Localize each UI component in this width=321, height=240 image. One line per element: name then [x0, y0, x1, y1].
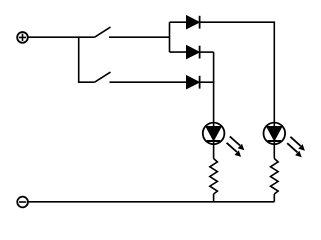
LED LED2 [264, 123, 286, 145]
wire: R2 to ground rail [273, 194, 275, 202]
resistor R1 [210, 159, 218, 195]
diode D2 [187, 46, 200, 59]
wire: + terminal to switch S1 [28, 36, 95, 38]
wire: LED1 branch vertical [213, 52, 215, 158]
diode D1 [187, 16, 200, 29]
diode D3 [187, 76, 200, 89]
wire: S2 to diode D3 [110, 81, 187, 83]
resistor R2 [271, 159, 279, 195]
switch S2 [95, 72, 111, 82]
wire: bus to diode D2 [170, 51, 187, 53]
battery negative terminal - [17, 197, 28, 208]
wire: diode input bus vertical [169, 22, 171, 52]
LED1 emission arrows [227, 136, 245, 157]
LED LED1 [203, 123, 225, 145]
wire: D2 to LED1 branch [200, 51, 214, 53]
wire: LED2 branch vertical [273, 122, 275, 159]
wire: ground rail [28, 201, 274, 203]
wire: D3 to LED1 branch [200, 81, 214, 83]
LED2 emission arrows [287, 137, 305, 158]
wire: junction node down to switch S2 [79, 37, 95, 82]
wire: S1 to diode bus [109, 36, 170, 38]
wire: D1 to LED2 branch (top right corner) [200, 22, 275, 122]
switch S1 [95, 27, 111, 37]
battery positive terminal + [17, 32, 28, 43]
wire: R1 to ground rail [213, 194, 215, 202]
wire: bus to diode D1 [170, 21, 187, 23]
